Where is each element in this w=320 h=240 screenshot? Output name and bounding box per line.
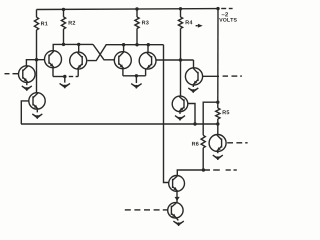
resistor R5 bbox=[216, 102, 230, 124]
ground Q10 emitter bbox=[173, 218, 183, 226]
junction R2 top bbox=[62, 8, 65, 11]
transistor Q11 bbox=[209, 135, 226, 152]
wire -2V rail down bbox=[217, 9, 219, 103]
resistor R1 bbox=[34, 10, 47, 60]
junction R6 bottom bbox=[202, 168, 205, 171]
wire dashed -2V continuation bbox=[221, 8, 226, 10]
transistor Q4 bbox=[114, 52, 131, 69]
wire Q11 collector bbox=[217, 124, 219, 135]
ground Q8 emitter bbox=[32, 109, 42, 119]
junction R5 top node bbox=[216, 101, 219, 104]
wire Q2 collector to rail bbox=[53, 44, 93, 51]
wire Q8 base feedback bbox=[21, 101, 29, 124]
wire dashed Q10 base input bbox=[125, 209, 131, 211]
wire Q6 base bbox=[203, 75, 219, 77]
wire Q1 collector to Q2 base bbox=[26, 60, 44, 66]
resistor R3 bbox=[135, 9, 149, 45]
ground pair1 emitter bbox=[60, 77, 70, 89]
ground Q6 emitter bbox=[188, 85, 198, 93]
junction -2V terminal bbox=[216, 7, 219, 10]
wire Q5 collector bbox=[147, 45, 149, 53]
wire R6 feed bbox=[203, 102, 218, 135]
junction Q4 collector bbox=[122, 43, 125, 46]
wire dashed output bbox=[213, 169, 220, 171]
transistor Q2 bbox=[45, 51, 62, 68]
resistor R6 bbox=[192, 135, 205, 170]
transistor Q7 bbox=[172, 96, 188, 112]
wire pair1 emitter rail bbox=[53, 76, 66, 78]
resistor R4 bbox=[178, 9, 192, 60]
wire pair2 emitter rail bbox=[123, 75, 146, 77]
wire Q9 collector line bbox=[177, 170, 210, 176]
wire Q6 collector bbox=[193, 60, 195, 68]
transistor Q1 bbox=[19, 66, 36, 83]
wire Q7 base to node line bbox=[188, 104, 195, 125]
ground Q7 emitter bbox=[175, 112, 185, 121]
wire dashed Q1 base input bbox=[5, 73, 10, 75]
junction R3 bottom bbox=[135, 43, 138, 46]
transistor Q6 bbox=[185, 68, 202, 85]
wire Q4 emitter bbox=[122, 69, 124, 76]
wire pair2 rail to Q9 base bbox=[164, 45, 169, 183]
wire R1 node to Q8 collector bbox=[36, 60, 38, 93]
wire node line y123 bbox=[21, 123, 218, 125]
junction R3 top bbox=[135, 7, 138, 10]
junction R4 top bbox=[179, 7, 182, 10]
transistor Q8 bbox=[29, 93, 45, 109]
transistor Q9 bbox=[169, 176, 185, 192]
wire Q9 emitter to Q10 collector bbox=[175, 191, 180, 203]
wire top -2V supply rail bbox=[37, 8, 219, 11]
wire Q5 emitter bbox=[145, 69, 147, 76]
transistor Q5 bbox=[139, 52, 156, 69]
wire cross-coupling B bbox=[88, 45, 124, 61]
wire cross-coupling A bbox=[93, 44, 114, 59]
ground Q11 emitter bbox=[213, 152, 223, 161]
wire Q3 collector bbox=[78, 44, 80, 52]
arrow marker right of R4 bbox=[196, 24, 203, 28]
transistor Q3 bbox=[70, 52, 87, 69]
transistor Q10 bbox=[168, 203, 183, 218]
wire pair2 collector rail bbox=[124, 44, 164, 46]
label -2 VOLTS bbox=[219, 12, 236, 21]
resistor R2 bbox=[61, 9, 75, 44]
junction Q7 base tap bbox=[193, 122, 196, 125]
wire dashed Q11 base input bbox=[227, 142, 233, 144]
wire dashed Q6 base input bbox=[223, 75, 228, 77]
ground Q1 emitter bbox=[22, 82, 32, 91]
wire dashed pair1 emitter stub bbox=[69, 76, 73, 78]
junction Q5 collector bbox=[147, 43, 150, 46]
ground pair2 emitter bbox=[131, 76, 141, 89]
junction R5 bottom node bbox=[216, 122, 219, 125]
junction pair2 emitter bbox=[135, 74, 138, 77]
wire Q7 collector bbox=[180, 60, 182, 96]
wire Q4 collector bbox=[123, 45, 125, 52]
junction Q3 collector bbox=[77, 43, 80, 46]
wire Q3 emitter bbox=[77, 69, 79, 76]
junction R1 bottom node bbox=[35, 58, 38, 61]
wire Q2 emitter bbox=[52, 68, 54, 77]
wire Q5 base line bbox=[156, 59, 194, 61]
junction R4 bottom bbox=[179, 58, 182, 61]
junction pair1 emitter bbox=[63, 75, 66, 78]
junction R2 bottom bbox=[62, 43, 65, 46]
